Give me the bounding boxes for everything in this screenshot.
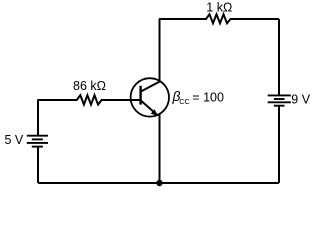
- svg-text:1 kΩ: 1 kΩ: [206, 0, 232, 14]
- svg-text:5 V: 5 V: [5, 133, 24, 147]
- svg-text:= 100: = 100: [192, 91, 224, 105]
- svg-text:9 V: 9 V: [291, 93, 310, 107]
- svg-text:CC: CC: [179, 97, 190, 106]
- svg-text:86 kΩ: 86 kΩ: [73, 79, 106, 93]
